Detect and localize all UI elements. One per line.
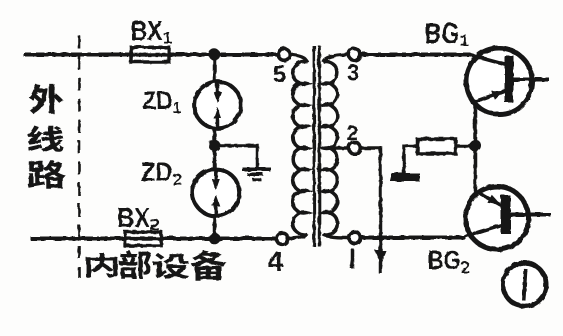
svg-text:3: 3 [346,59,359,85]
svg-text:ZD2: ZD2 [140,157,181,189]
svg-text:BX2: BX2 [117,202,159,234]
svg-text:BX1: BX1 [130,15,171,47]
svg-text:5: 5 [272,61,285,88]
svg-text:4: 4 [267,245,283,276]
svg-text:BG1: BG1 [424,18,468,50]
svg-text:2: 2 [346,122,358,145]
svg-text:ZD1: ZD1 [142,87,181,117]
svg-text:BG2: BG2 [427,245,469,277]
